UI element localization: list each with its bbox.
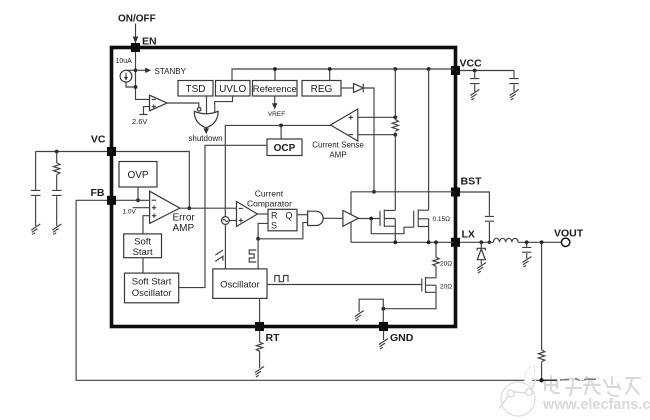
resistor sense divider [394,69,396,210]
capacitor C4 output [526,242,528,247]
ground C2 [510,90,519,101]
wire FB to error amp [116,199,150,201]
capacitor C6 VC [52,190,61,195]
wire S input [258,223,268,238]
svg-text:Error: Error [173,212,196,223]
ground internal hatch [355,311,364,322]
wire shutdown output arrow [205,127,207,130]
ground C5 [31,224,40,235]
pin VCC [451,66,460,75]
svg-text:Start: Start [133,247,153,258]
wire FET2 drain vertical [428,69,430,210]
capacitor C1 VCC [474,71,476,79]
svg-text:GND: GND [390,332,414,344]
wire driver block left edge [350,192,352,243]
node feedback tap [540,240,544,244]
box Reference [253,81,298,97]
svg-text:OCP: OCP [274,143,296,154]
wire TSD to OR [206,96,208,115]
ground C6 [52,224,61,235]
capacitor C2 VCC [513,71,515,79]
op-amp U1 Error AMP [150,191,180,223]
ground C1 [470,90,479,101]
wire sense amp plus input [358,116,396,118]
box Soft Start Oscillator [125,273,179,303]
wire sense amp minus input [358,134,396,136]
svg-text:UVLO: UVLO [219,84,246,95]
transistor Q1 (0.15ohm switch) [379,211,381,226]
wire summing to comparator plus [229,220,236,222]
svg-text:LX: LX [462,229,475,241]
svg-text:www.elecfans.com: www.elecfans.com [542,397,650,413]
wire internal VCC rail [232,69,454,81]
node summing circle [222,217,230,225]
wire 2.6V to comparator plus [140,107,150,115]
diode D1 after REG [341,87,354,89]
svg-text:BST: BST [461,176,483,188]
wire soft start to soft start oscillator [142,258,144,273]
pin RT [255,322,264,331]
watermark halo [543,370,650,412]
resistor RT external [259,331,261,342]
glyph square wave [249,250,256,262]
op-amp U2 Current Sense AMP [331,109,358,141]
wire fragment right of divider [542,379,557,381]
svg-text:2.6V: 2.6V [132,117,147,126]
svg-text:20Ω: 20Ω [440,284,452,291]
box OVP [119,162,157,188]
glyph sawtooth wave [215,250,223,261]
wire diode to driver rail [363,88,374,192]
wire sawtooth to summing node [224,224,226,269]
wire UVLO to OR [215,96,233,115]
box Soft Start [124,234,162,258]
svg-text:Comparator: Comparator [247,199,292,209]
node feedback divider junction (over watermark) [540,378,544,382]
capacitor C5 VC [35,152,37,190]
node rail-REG [329,69,331,81]
wire LX output [460,241,493,243]
svg-text:STANBY: STANBY [155,67,187,76]
transistor Q2 (0.15ohm switch) [413,211,415,228]
svg-text:REG: REG [311,84,333,95]
watermark text 电子发烧友 (approximated strokes) [545,376,640,396]
svg-text:R: R [271,210,278,220]
box TSD [178,81,213,97]
svg-text:Current: Current [255,189,284,199]
node OCP tap [279,124,283,128]
wire EN comparator output to OR [167,103,199,107]
svg-text:Oscillator: Oscillator [220,279,260,290]
wire FB external feedback loop [76,200,541,380]
glyph pulse wave [275,276,288,282]
wire EN internal vertical [136,52,150,99]
IC package outline [112,48,456,327]
wire clock to AND gate [258,223,308,239]
svg-text:VCC: VCC [460,58,483,70]
diode D2 catch (schottky) [480,242,482,248]
wire buffer output to gates [358,218,380,220]
wire VREF output arrow [274,96,276,106]
svg-text:10uA: 10uA [116,58,133,65]
wire error amp output to comparator [180,207,237,209]
svg-text:OVP: OVP [127,170,148,181]
svg-text:1.0V: 1.0V [123,209,137,216]
svg-text:S: S [271,221,277,231]
terminal VOUT [561,238,569,246]
node VC comp junction [55,150,59,154]
wire Q output to AND [297,214,308,216]
node source-GND junction [381,307,385,311]
wire gate bus to FET2 [371,219,414,234]
wire driver block top rail to BST [351,191,454,193]
wire switch output rail to LX [351,241,454,243]
svg-text:Reference: Reference [253,84,297,95]
pin FB [107,196,116,205]
node EN-source junction [134,85,138,89]
node VCC cap1 junction [473,69,477,73]
resistor R1 feedback upper [541,242,543,350]
pin BST [451,188,460,197]
gate AND [308,211,324,225]
svg-text:Soft Start: Soft Start [132,277,172,288]
op-amp U3 current comparator [237,202,258,227]
wire divider to ground stub [542,379,594,381]
box UVLO [216,81,251,97]
transistor Q3 lower clamp [421,278,423,291]
wire VC external [36,151,107,153]
svg-text:ON/OFF: ON/OFF [118,14,156,25]
wire oscillator to RT [259,298,261,322]
wire OCP to soft-start oscillator [179,145,267,287]
wire soft start to error amp [143,216,150,234]
node catch diode junction [479,240,483,244]
svg-text:EN: EN [142,36,157,48]
wire internal analog ground loop [359,299,383,312]
wire sense amp output to summing node [225,125,330,216]
gate shutdown OR (pointing down) [194,111,218,128]
wire OVP to FB node [137,187,139,200]
watermark elecfans logo [499,365,536,416]
pin EN [131,43,140,52]
pin GND [379,322,388,331]
ground GND external [383,331,385,340]
wire comparator to latch R [258,213,269,215]
pin LX [451,238,460,247]
wire inductor to VOUT [518,241,561,243]
ground RT [255,367,264,378]
node output cap junction [525,240,529,244]
box Oscillator [213,269,267,299]
node rail-FET2 drain [427,67,431,71]
wire VCC external rail [460,70,514,72]
svg-text:0.15Ω: 0.15Ω [433,216,451,223]
wire oscillator gate drive output [267,284,422,286]
pin VC [107,147,116,156]
box OCP [267,139,302,156]
wire junction to GND pin [382,309,384,322]
node rail-sense divider [393,67,397,71]
resistor 20ohm gate [434,240,438,244]
svg-text:20Ω: 20Ω [440,261,452,268]
svg-text:Soft: Soft [134,237,151,248]
node EN-standby junction [134,68,138,72]
svg-text:VC: VC [91,134,106,146]
svg-text:AMP: AMP [329,151,346,160]
svg-text:AMP: AMP [173,223,195,234]
svg-text:Oscillator: Oscillator [132,288,172,299]
svg-text:VREF: VREF [268,111,285,118]
svg-text:shutdown: shutdown [188,134,222,143]
node error amp output / VC junction [187,206,191,210]
svg-text:Q: Q [286,210,293,220]
wire AND to buffer [323,217,343,219]
wire 1.0V reference input [133,207,150,209]
node gate bus junction [369,217,373,221]
buffer U4 gate driver [343,210,358,226]
op-amp EN comparator [150,95,168,111]
svg-text:RT: RT [266,332,281,344]
node diode-driver rail junction [372,190,376,194]
ground D2 [477,263,486,274]
node rail-Reference [274,69,276,81]
capacitor C3 bootstrap [485,216,494,221]
resistor R2 VC [56,152,58,163]
wire EN input arrow [135,24,137,38]
svg-text:FB: FB [91,187,105,199]
ground C4 [522,257,531,268]
ground divider [590,378,599,389]
wire BST to bootstrap cap [460,192,489,216]
wire clock to oscillator [257,239,259,269]
latch RS [268,209,297,231]
wire VC to error amp output [116,152,189,209]
node feedback divider junction [540,378,544,382]
svg-text:Current Sense: Current Sense [312,141,364,150]
node S clock junction [256,237,260,241]
svg-text:TSD: TSD [186,84,206,95]
inductor L1 [493,238,518,242]
box REG [302,81,341,97]
svg-text:VOUT: VOUT [554,228,584,240]
wire STANBY output arrow [136,69,148,71]
